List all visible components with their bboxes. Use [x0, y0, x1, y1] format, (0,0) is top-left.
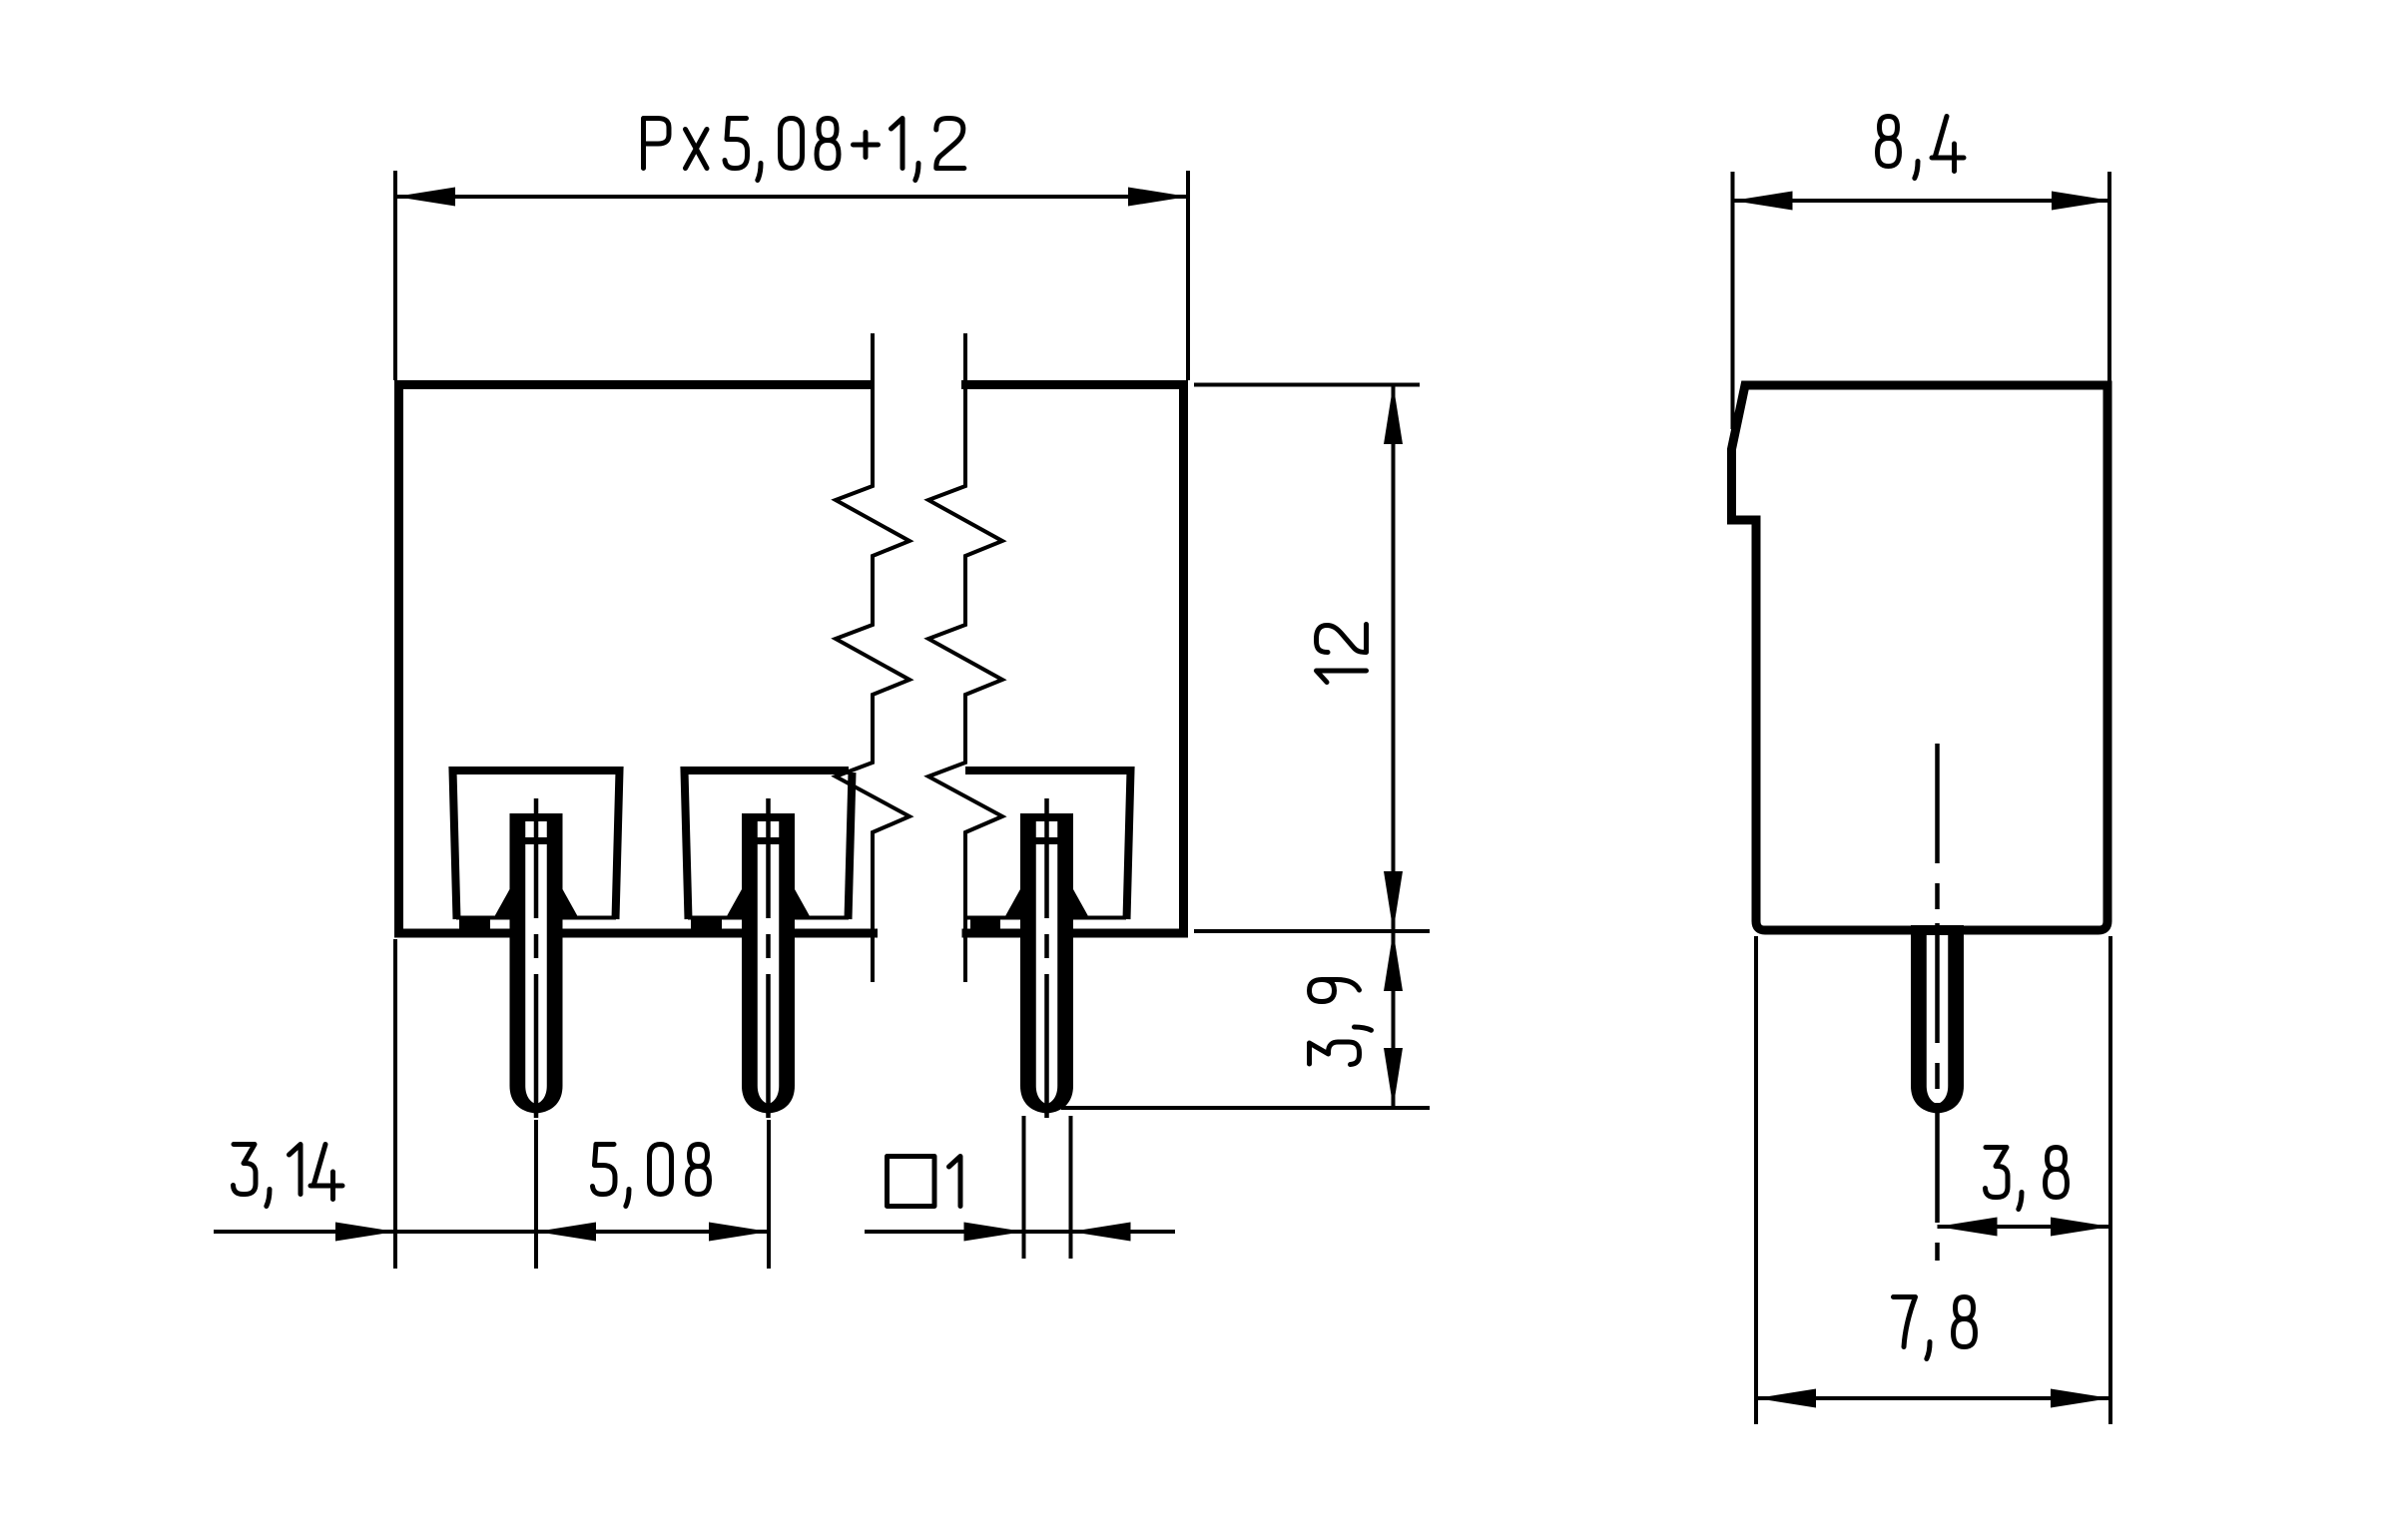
contact chamber 3 (trapezoid): [965, 770, 1131, 919]
contact chamber 1 bottom line: [456, 916, 616, 920]
dimension 8,4: right arrowhead: [2052, 192, 2111, 211]
dimension 3,9: label text: [1310, 980, 1372, 1065]
side view body outline: [1732, 385, 2108, 930]
dimension 7,8: extension line left: [1754, 936, 1758, 1424]
dimension 8,4: extension line left: [1731, 172, 1735, 429]
dimension 12: extension line bottom: [1194, 929, 1430, 933]
dimension 7,8: left arrowhead: [1756, 1389, 1816, 1408]
dimension 8,4: label text: [1878, 117, 1965, 179]
extension line pin 2 center: [767, 1120, 771, 1269]
contact chamber 2 (trapezoid): [685, 770, 850, 919]
housing front view: bottom edge right segment: [962, 929, 1189, 938]
dimension 3,8: right arrowhead: [2051, 1218, 2110, 1237]
dimension 7,8: extension line right: [2108, 936, 2112, 1424]
dimension square 1: dimension line left part: [865, 1230, 1175, 1234]
dimension 12: bottom arrowhead: [1384, 871, 1403, 931]
housing front view: right edge: [1179, 380, 1188, 938]
dimension 3,8: dimension line: [1938, 1225, 2111, 1229]
contact chamber 1 solder tab: [459, 917, 490, 929]
shared arrowhead at pin 1 center: [536, 1223, 596, 1242]
pin 1: [494, 798, 578, 1118]
contact chamber 3 bottom line: [967, 916, 1126, 920]
dimension 3,14 and 5,08: chain dimension line: [214, 1230, 769, 1234]
dimension 3,14: arrowhead at housing edge: [335, 1223, 395, 1242]
dimension Px5,08+1,2: extension line left: [393, 171, 397, 380]
dimension Px5,08+1,2: dimension line: [395, 195, 1188, 199]
dimension Px5,08+1,2: right arrowhead: [1128, 188, 1188, 207]
dimension 5,08: arrowhead at pin 2 center: [709, 1223, 769, 1242]
dimension 8,4: dimension line: [1733, 199, 2112, 203]
contact chamber 3 solder tab: [970, 917, 1000, 929]
dimension 3,14: label text: [234, 1145, 343, 1207]
contact chamber 2 right edge: [849, 772, 853, 919]
pin 2: [727, 798, 811, 1118]
housing front view: bottom edge left segment: [394, 929, 878, 938]
dimension 3,9: dimension line: [1392, 931, 1396, 1108]
extension line pin 1 center: [534, 1120, 538, 1269]
dimension 12: dimension line: [1392, 384, 1396, 931]
dimension 8,4: extension line right: [2107, 172, 2111, 381]
dimension 5,08: label text: [593, 1145, 710, 1207]
contact chamber 2 bottom line: [688, 916, 849, 920]
contact chamber 2 solder tab: [691, 917, 722, 929]
dimension square 1: extension line left: [1022, 1116, 1026, 1259]
housing front view: top edge left segment: [394, 380, 875, 389]
dimension square 1: right arrowhead: [1071, 1223, 1131, 1242]
housing front view: top edge right segment: [961, 380, 1188, 389]
dimension 3,8: left arrowhead: [1938, 1218, 1998, 1237]
dimension Px5,08+1,2: label text: [644, 119, 964, 181]
dimension 12: extension line top: [1194, 383, 1420, 387]
dimension Px5,08+1,2: left arrowhead: [395, 188, 455, 207]
dimension 3,9: extension line bottom: [1061, 1106, 1430, 1110]
dimension Px5,08+1,2: extension line right: [1186, 171, 1190, 380]
dimension 3,9: bottom arrowhead: [1384, 1048, 1403, 1108]
dimension 7,8: label text: [1894, 1297, 1976, 1359]
side view pin: [1911, 744, 1964, 1261]
dimension 7,8: dimension line: [1756, 1396, 2110, 1400]
dimension 12: top arrowhead: [1384, 384, 1403, 444]
dimension square 1: extension line right: [1069, 1116, 1073, 1259]
extension line housing left edge: [393, 939, 397, 1269]
dimension 8,4: left arrowhead: [1733, 192, 1793, 211]
dimension square 1: label: [888, 1157, 961, 1207]
dimension 3,8: label text: [1986, 1148, 2068, 1210]
break line left zigzag: [836, 333, 909, 982]
dimension 12: label text: [1317, 625, 1367, 683]
dimension 3,9: top arrowhead: [1384, 931, 1403, 991]
pin 3: [1005, 798, 1089, 1118]
dimension square 1: left arrowhead: [964, 1223, 1024, 1242]
break line right zigzag: [928, 333, 1002, 982]
housing front view: left edge: [394, 380, 403, 938]
contact chamber 1 (trapezoid): [453, 770, 620, 919]
dimension 7,8: right arrowhead: [2051, 1389, 2110, 1408]
